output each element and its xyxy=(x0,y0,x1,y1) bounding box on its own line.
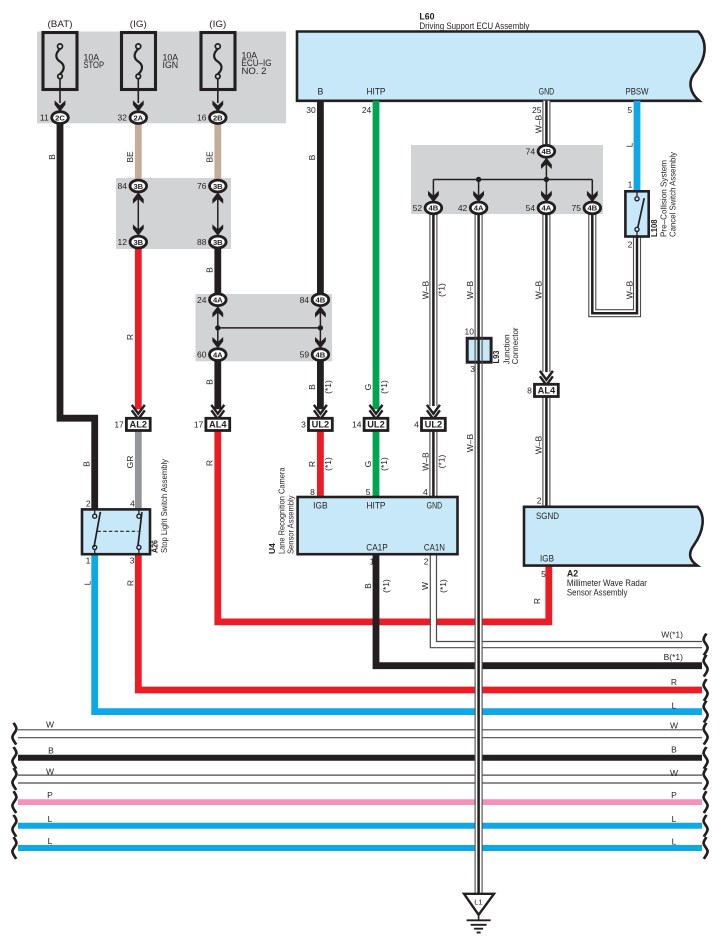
stop light switch A26 box xyxy=(82,509,150,554)
wire B black camera CA1P to bus xyxy=(376,554,702,666)
connector pin 60 4A xyxy=(210,349,227,361)
svg-text:G: G xyxy=(363,384,373,391)
svg-text:54: 54 xyxy=(526,203,536,213)
pre-collision cancel switch L108 box xyxy=(625,191,648,236)
svg-text:IGN: IGN xyxy=(163,60,179,70)
junction block AL4 pin 8 xyxy=(540,371,553,380)
svg-text:16: 16 xyxy=(197,113,207,123)
svg-text:4B: 4B xyxy=(587,204,597,213)
svg-text:4A: 4A xyxy=(542,204,552,213)
harness break brace right W row5 xyxy=(704,723,708,745)
svg-text:11: 11 xyxy=(40,113,49,123)
svg-text:UL2: UL2 xyxy=(425,420,443,430)
svg-text:2C: 2C xyxy=(55,113,65,122)
svg-text:G: G xyxy=(363,461,373,468)
svg-text:W–B: W–B xyxy=(533,114,543,133)
svg-text:R: R xyxy=(126,580,136,586)
harness break brace left L row10 xyxy=(12,837,16,859)
svg-text:3B: 3B xyxy=(133,182,143,191)
svg-text:SGND: SGND xyxy=(536,511,559,521)
junction dot gnd col8 xyxy=(544,177,549,182)
svg-text:(BAT): (BAT) xyxy=(48,19,73,29)
svg-text:U4: U4 xyxy=(267,543,277,554)
fuse 10A ECU-IG NO.2 xyxy=(201,33,235,90)
bus wire P row8 xyxy=(18,799,702,805)
wire B black 4B to UL2 xyxy=(317,360,324,409)
svg-text:B: B xyxy=(307,154,317,160)
harness break brace right L row10 xyxy=(704,837,708,859)
svg-text:3: 3 xyxy=(301,419,306,429)
junction dot gnd col7 xyxy=(476,177,481,182)
connector pin 84 4B xyxy=(312,294,329,306)
svg-text:(*1): (*1) xyxy=(323,380,333,394)
svg-text:B: B xyxy=(48,745,54,755)
ECU L60 Driving Support ECU Assembly box xyxy=(297,32,705,101)
harness break brace left P row8 xyxy=(12,791,16,813)
svg-text:W: W xyxy=(670,721,678,731)
svg-text:AL2: AL2 xyxy=(130,420,148,430)
svg-text:HITP: HITP xyxy=(367,86,386,96)
svg-text:W–B: W–B xyxy=(420,452,430,471)
svg-text:W: W xyxy=(420,582,430,590)
svg-text:17: 17 xyxy=(194,419,204,429)
wire W-B 4B to UL2 col6 xyxy=(430,214,437,406)
svg-text:HITP: HITP xyxy=(367,501,386,511)
gray harness box 3B xyxy=(116,178,231,249)
svg-text:R: R xyxy=(205,460,215,466)
wire GR gray AL2 to stop light switch xyxy=(135,430,142,509)
svg-text:(*1): (*1) xyxy=(436,283,446,297)
wire 3B pass-through col3 xyxy=(217,193,219,235)
svg-text:P: P xyxy=(671,790,677,800)
svg-text:2B: 2B xyxy=(213,113,223,122)
svg-text:4A: 4A xyxy=(213,296,223,305)
svg-text:R: R xyxy=(307,461,317,467)
wire B black ECU pin30 to 4B xyxy=(317,101,324,294)
svg-text:B: B xyxy=(205,267,215,273)
svg-text:L1: L1 xyxy=(474,898,482,907)
wire R red UL2 to camera IGB xyxy=(317,430,324,497)
svg-text:4A: 4A xyxy=(474,204,484,213)
svg-text:R: R xyxy=(671,677,677,687)
svg-text:3B: 3B xyxy=(213,182,223,191)
ground distribution lines in right gray box xyxy=(545,157,547,179)
connector pin 88 3B xyxy=(210,236,227,248)
svg-text:1: 1 xyxy=(86,555,91,565)
harness break brace left W row7 xyxy=(12,768,16,790)
bus wire W row5 xyxy=(18,729,702,731)
svg-text:L: L xyxy=(672,837,677,847)
bus wire B row6 xyxy=(18,755,702,761)
svg-text:W–B: W–B xyxy=(420,280,430,299)
svg-text:(*1): (*1) xyxy=(438,579,448,593)
svg-text:B: B xyxy=(671,745,677,755)
L108 switch contacts xyxy=(636,191,638,196)
svg-text:60: 60 xyxy=(197,350,207,360)
svg-text:14: 14 xyxy=(352,419,362,429)
svg-text:88: 88 xyxy=(197,237,207,247)
svg-text:4: 4 xyxy=(423,487,428,497)
svg-text:L: L xyxy=(48,814,53,824)
harness break brace right L row9 xyxy=(704,815,708,837)
svg-text:Sensor Assembly: Sensor Assembly xyxy=(567,587,628,597)
connector pin 76 3B xyxy=(210,180,227,192)
fuse 10A IGN xyxy=(122,33,156,90)
svg-text:52: 52 xyxy=(413,203,423,213)
svg-text:3B: 3B xyxy=(133,238,143,247)
svg-text:W–B: W–B xyxy=(465,280,475,299)
svg-text:42: 42 xyxy=(458,203,468,213)
svg-text:4B: 4B xyxy=(429,204,439,213)
svg-text:4B: 4B xyxy=(316,296,326,305)
svg-text:(*1): (*1) xyxy=(436,454,446,468)
svg-text:30: 30 xyxy=(306,105,316,115)
svg-text:2: 2 xyxy=(628,239,633,249)
svg-text:B(*1): B(*1) xyxy=(664,652,684,662)
svg-text:AL4: AL4 xyxy=(538,386,556,396)
svg-text:B: B xyxy=(205,379,215,385)
connector pin 54 4A xyxy=(538,202,555,214)
svg-text:8: 8 xyxy=(527,385,532,395)
svg-text:1: 1 xyxy=(628,179,633,189)
junction block UL2 pin 3 xyxy=(314,405,327,414)
harness break brace right R xyxy=(704,679,708,701)
svg-text:AL4: AL4 xyxy=(209,420,227,430)
svg-text:24: 24 xyxy=(197,295,207,305)
svg-text:P: P xyxy=(47,790,53,800)
connector pin 24 4A xyxy=(210,294,227,306)
svg-text:W–B: W–B xyxy=(533,280,543,299)
harness break brace left L row9 xyxy=(12,815,16,837)
svg-text:BE: BE xyxy=(125,151,135,163)
wire R red stop light switch pin3 to bus xyxy=(138,554,702,690)
harness break brace left W row5 xyxy=(12,723,16,745)
harness break brace right B row6 xyxy=(704,747,708,769)
svg-text:(*1): (*1) xyxy=(381,579,391,593)
svg-text:32: 32 xyxy=(118,113,128,123)
svg-text:4B: 4B xyxy=(316,350,326,359)
connector pin 74 4B xyxy=(538,145,555,157)
radar A2 box xyxy=(524,507,703,566)
svg-text:UL2: UL2 xyxy=(312,420,330,430)
svg-text:L: L xyxy=(672,701,677,711)
svg-text:W: W xyxy=(46,719,54,729)
svg-text:Driving Support ECU Assembly: Driving Support ECU Assembly xyxy=(419,21,530,31)
svg-text:(*1): (*1) xyxy=(323,457,333,471)
svg-text:5: 5 xyxy=(627,105,632,115)
svg-text:W–B: W–B xyxy=(625,280,635,299)
harness break brace right W(*1) xyxy=(704,634,708,656)
L108 switch lever xyxy=(638,198,644,227)
svg-text:B: B xyxy=(363,583,373,589)
svg-text:CA1N: CA1N xyxy=(424,542,445,552)
wire R red 3B to AL2 xyxy=(135,248,142,410)
svg-text:L: L xyxy=(625,142,635,147)
harness break brace right P row8 xyxy=(704,791,708,813)
A26 switch contacts xyxy=(94,509,96,514)
svg-text:74: 74 xyxy=(526,146,536,156)
svg-text:3: 3 xyxy=(470,364,475,374)
svg-text:(*1): (*1) xyxy=(379,457,389,471)
harness break brace left B row6 xyxy=(12,747,16,769)
svg-text:R: R xyxy=(125,334,135,340)
svg-text:2: 2 xyxy=(86,499,91,509)
wire W white camera CA1N to bus xyxy=(433,554,702,644)
svg-text:84: 84 xyxy=(300,295,310,305)
svg-text:GND: GND xyxy=(427,501,443,511)
harness break brace right W row7 xyxy=(704,768,708,790)
svg-text:Sensor Assembly: Sensor Assembly xyxy=(286,495,296,554)
svg-text:4A: 4A xyxy=(213,350,223,359)
connector pin 32 2A xyxy=(133,100,144,111)
wire L blue stop light switch pin1 to bus xyxy=(95,554,702,711)
svg-text:L93: L93 xyxy=(491,350,501,363)
wire G green ECU HITP to UL2 xyxy=(373,101,380,410)
connector pin 11 2C xyxy=(55,100,66,111)
svg-text:L: L xyxy=(82,580,92,585)
svg-text:2: 2 xyxy=(424,556,429,566)
svg-text:NO. 2: NO. 2 xyxy=(242,66,267,76)
svg-text:17: 17 xyxy=(114,419,124,429)
svg-text:2: 2 xyxy=(537,495,542,505)
svg-text:10: 10 xyxy=(465,326,475,336)
svg-text:4: 4 xyxy=(130,499,135,509)
wire BE beige fuse ECU-IG to 3B xyxy=(214,123,221,180)
connector pin 12 3B xyxy=(130,236,147,248)
connector pin 59 4B xyxy=(312,349,329,361)
camera U4 box xyxy=(298,497,458,554)
wire L blue ECU PBSW to cancel switch xyxy=(634,101,641,192)
svg-text:BE: BE xyxy=(205,151,215,163)
junction block AL2 pin 17 xyxy=(132,405,145,414)
svg-text:1: 1 xyxy=(370,556,375,566)
svg-text:B: B xyxy=(81,461,91,467)
svg-text:W: W xyxy=(670,768,678,778)
svg-text:2A: 2A xyxy=(133,113,143,122)
connector pin 42 4A xyxy=(470,202,487,214)
gray harness box top band xyxy=(37,32,286,124)
svg-text:B: B xyxy=(47,154,57,160)
svg-text:W–B: W–B xyxy=(533,435,543,454)
wire R red AL4 to radar IGB xyxy=(218,430,549,622)
connector pin 52 4B xyxy=(425,202,442,214)
svg-text:84: 84 xyxy=(118,181,128,191)
connector pin 84 3B xyxy=(130,180,147,192)
wire 3B pass-through col2 xyxy=(137,193,139,235)
svg-text:8: 8 xyxy=(310,487,315,497)
bus wire L row10 xyxy=(18,845,702,851)
svg-text:Stop Light Switch Assembly: Stop Light Switch Assembly xyxy=(159,458,169,553)
wire B black 3B to 4A xyxy=(214,248,221,294)
svg-text:L60: L60 xyxy=(419,12,434,22)
bus wire L row9 xyxy=(18,823,702,829)
svg-text:W: W xyxy=(46,766,54,776)
svg-text:Cancel Switch Assembly: Cancel Switch Assembly xyxy=(668,151,678,237)
svg-text:GND: GND xyxy=(539,86,555,96)
svg-text:5: 5 xyxy=(366,487,371,497)
svg-text:4B: 4B xyxy=(542,147,552,156)
svg-text:L: L xyxy=(672,814,677,824)
fuse 10A STOP xyxy=(43,33,77,90)
svg-text:L108: L108 xyxy=(649,219,659,237)
svg-text:GR: GR xyxy=(125,456,135,469)
junction block UL2 pin 14 xyxy=(370,405,383,414)
harness break brace right L row4 xyxy=(704,701,708,723)
junction block UL2 pin 4 xyxy=(427,405,440,414)
ground L1 xyxy=(464,894,494,915)
wire 4A-4B crosslink mid box xyxy=(217,306,219,348)
svg-text:(*1): (*1) xyxy=(379,380,389,394)
wire B black 4A to AL4 xyxy=(214,360,221,409)
svg-text:12: 12 xyxy=(118,237,128,247)
junction connector L93 box xyxy=(467,338,491,362)
svg-text:59: 59 xyxy=(300,350,310,360)
svg-text:W–B: W–B xyxy=(465,433,475,452)
wire W-B ECU GND to 4B xyxy=(543,101,550,146)
svg-text:R: R xyxy=(532,598,542,604)
svg-text:3B: 3B xyxy=(213,238,223,247)
svg-text:24: 24 xyxy=(362,105,372,115)
A26 switch levers xyxy=(94,512,100,547)
svg-text:STOP: STOP xyxy=(84,60,105,70)
svg-text:PBSW: PBSW xyxy=(626,86,650,96)
svg-text:L: L xyxy=(48,836,53,846)
svg-text:W(*1): W(*1) xyxy=(661,630,683,640)
junction dot col4 xyxy=(318,325,323,330)
wire W-B AL4 to radar SGND xyxy=(543,396,550,507)
gray harness box 4A-4B mid xyxy=(196,294,333,361)
svg-text:Millimeter Wave Radar: Millimeter Wave Radar xyxy=(567,578,647,588)
wire G green UL2 to camera HITP xyxy=(373,430,380,497)
svg-text:76: 76 xyxy=(197,181,207,191)
svg-text:5: 5 xyxy=(541,569,546,579)
svg-text:3: 3 xyxy=(130,555,135,565)
svg-text:(IG): (IG) xyxy=(209,19,226,29)
svg-text:IGB: IGB xyxy=(540,554,554,564)
connector pin 16 2B xyxy=(212,100,223,111)
svg-text:B: B xyxy=(307,384,317,390)
svg-text:B: B xyxy=(317,86,323,96)
wire W-B 4A to AL4 col8 xyxy=(543,214,550,372)
svg-text:IGB: IGB xyxy=(313,501,328,511)
wire B black from fuse STOP to stop light switch xyxy=(60,123,95,509)
svg-text:4: 4 xyxy=(414,419,419,429)
wire W-B loop 4B to cancel switch pin2 xyxy=(592,214,637,314)
svg-text:Connector: Connector xyxy=(510,327,520,364)
connector pin 75 4B xyxy=(584,202,601,214)
bus wire W row7 xyxy=(18,774,702,776)
wire W-B junction connector branch to ground xyxy=(475,214,482,339)
svg-text:25: 25 xyxy=(532,105,542,115)
junction dot col3 xyxy=(215,325,220,330)
A26 switch link dashed line xyxy=(98,530,139,532)
wire BE beige fuse IGN to 3B xyxy=(135,123,142,180)
svg-text:(IG): (IG) xyxy=(130,19,147,29)
svg-text:CA1P: CA1P xyxy=(366,542,388,552)
gray harness box 4B right band xyxy=(411,145,603,214)
wire W-B UL2 to camera GND xyxy=(430,430,437,497)
svg-text:75: 75 xyxy=(572,203,582,213)
harness break brace right B(*1) xyxy=(704,655,708,677)
junction block AL4 pin 17 xyxy=(211,405,224,414)
svg-text:UL2: UL2 xyxy=(367,420,385,430)
